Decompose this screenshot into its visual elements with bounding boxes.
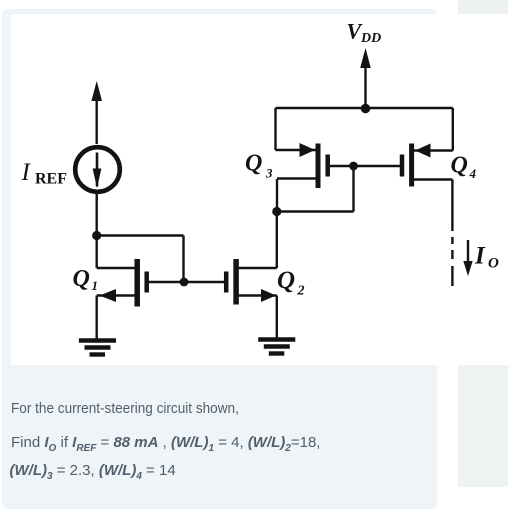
label V_DD	[347, 18, 382, 46]
wire: Q4 drain down to output (broken)	[451, 180, 453, 287]
svg-text:REF: REF	[35, 171, 67, 188]
node: Q3/Q4 gate junction dot	[349, 162, 358, 171]
node: gate bus junction dot	[180, 278, 189, 287]
wire: node A to Q1 drain	[95, 236, 97, 269]
node A junction dot	[92, 231, 101, 240]
svg-text:DD: DD	[360, 31, 381, 46]
question text line 3	[10, 462, 176, 482]
wire: IREF branch to supply (arrow up)	[91, 81, 102, 144]
svg-text:3: 3	[265, 166, 273, 181]
ground (Q1 source)	[79, 341, 116, 355]
V_DD supply arrow	[360, 48, 371, 108]
transistor Q4	[402, 144, 453, 187]
svg-text:Q: Q	[245, 151, 262, 177]
wire: rail down to Q3 source	[274, 108, 276, 150]
bottom-right neighbouring block	[458, 365, 508, 487]
svg-text:2: 2	[297, 284, 305, 299]
wire: IREF to node A	[95, 192, 97, 236]
label Q2	[277, 267, 305, 299]
svg-text:1: 1	[92, 278, 99, 293]
label Q4	[451, 153, 477, 182]
white schematic image area	[11, 14, 508, 365]
wire: Q3 gate to Q4 gate	[330, 165, 400, 167]
transistor Q3	[276, 143, 328, 188]
svg-text:Q: Q	[451, 153, 468, 179]
label I_REF	[21, 159, 68, 188]
question text line 1	[11, 400, 239, 417]
node: top rail junction dot	[361, 104, 371, 114]
transistor Q2	[226, 259, 277, 338]
svg-text:O: O	[488, 256, 499, 272]
wire: Q2 drain up to node B	[276, 212, 278, 269]
label Q3	[245, 151, 273, 181]
wire: node A to common gate bus	[97, 236, 184, 282]
current source IREF	[75, 147, 120, 192]
label Q1	[73, 266, 99, 293]
svg-text:4: 4	[469, 166, 477, 181]
svg-text:I: I	[21, 159, 32, 186]
wire: Q3 drain down to node B	[276, 179, 278, 212]
wire: Q1-Q2 gate bus	[149, 281, 224, 283]
output current arrow I_O	[463, 240, 472, 276]
svg-text:Q: Q	[277, 267, 295, 294]
ground (Q2 source)	[258, 340, 295, 354]
svg-text:Q: Q	[73, 266, 90, 292]
transistor Q1	[97, 259, 147, 339]
question text line 2	[11, 434, 320, 454]
wire: rail down to Q4 source	[452, 108, 454, 151]
wire: node B to Q3/Q4 gate node	[277, 166, 354, 212]
label I_O	[474, 243, 499, 272]
node B junction dot	[272, 207, 281, 216]
top-right neighbouring block	[458, 0, 508, 14]
wire: top rail from Q3 source to Q4 source	[276, 107, 453, 109]
svg-text:I: I	[474, 243, 486, 270]
